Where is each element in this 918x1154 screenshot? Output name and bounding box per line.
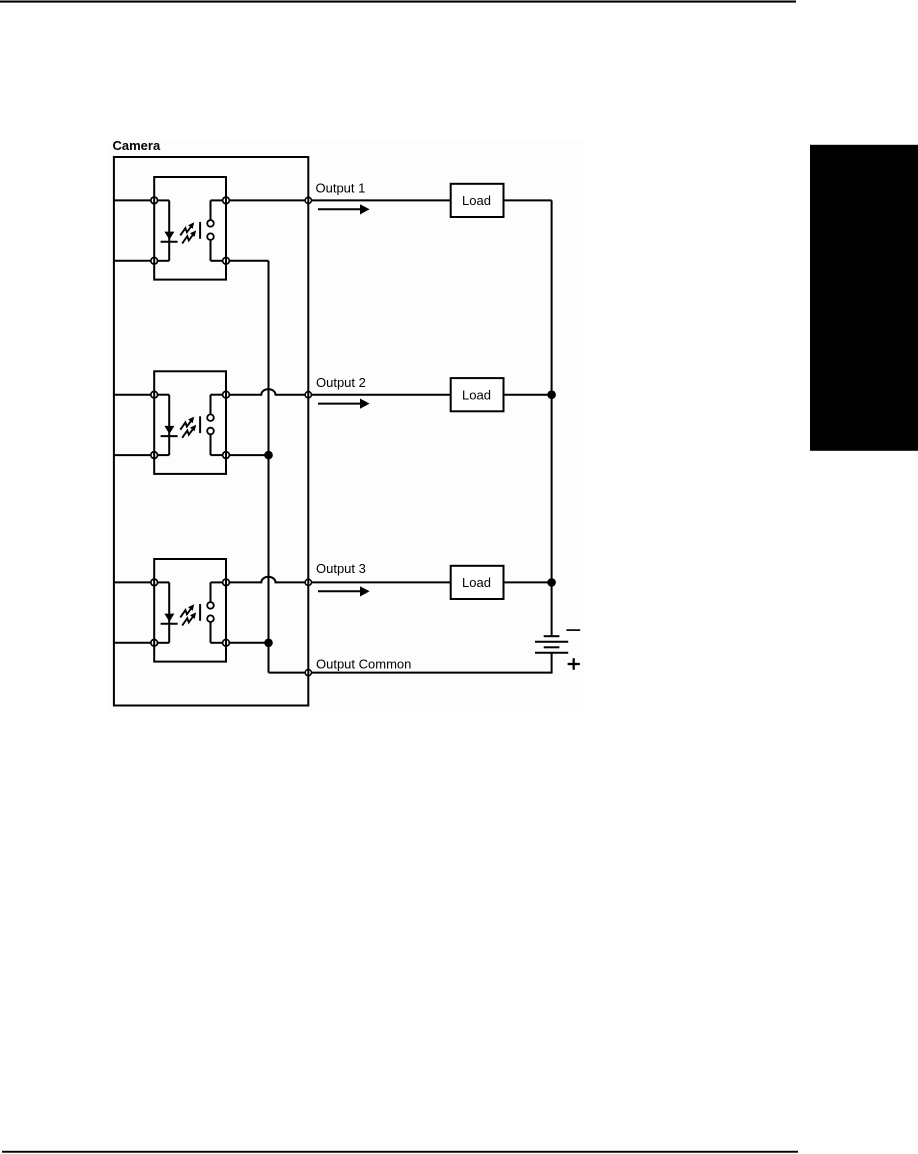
svg-text:Output 3: Output 3 xyxy=(316,561,366,576)
svg-text:Output 1: Output 1 xyxy=(316,181,366,196)
svg-text:Output Common: Output Common xyxy=(316,656,411,671)
svg-text:Camera: Camera xyxy=(113,138,161,153)
svg-text:Output 2: Output 2 xyxy=(316,375,366,390)
